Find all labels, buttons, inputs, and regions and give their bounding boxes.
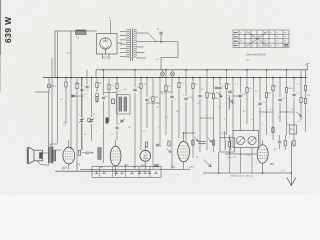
wire tube4 top link (184, 132, 196, 134)
svg-text:6,3V: 6,3V (246, 155, 251, 157)
fuse choke Dr1 (76, 30, 86, 31)
resistor at 294,143 (293, 141, 295, 146)
wire branch x=286.5 (286, 70, 288, 135)
wire branch x=247 (246, 70, 248, 124)
wire interconnect (104, 92, 117, 94)
variable capacitor C1 (236, 136, 244, 144)
small fuse at 97,95 (95, 93, 99, 97)
wire branch x=213.5 (213, 78, 215, 152)
wire branch x=147 (146, 78, 148, 128)
wire branch x=81.5 (81, 78, 83, 150)
svg-text:1M: 1M (268, 93, 271, 95)
wire branch x=52 (51, 58, 53, 147)
wire HT drop (177, 42, 179, 58)
resistor at 141,86 (140, 84, 142, 89)
wire bottom right rail (203, 172, 291, 174)
wire branch x=179 (178, 78, 180, 138)
resistor at 117,86 (116, 84, 118, 89)
left paper edge lower (0, 55, 2, 92)
wire HT to bus2 (160, 58, 162, 70)
wire main bus (43, 77, 307, 79)
resistor at 305.5,101 (304, 99, 306, 104)
node sec out (160, 41, 162, 43)
wire left drop to speaker (48, 92, 50, 165)
resistor above V4 (145, 142, 147, 147)
junction dots on buses (57, 77, 59, 79)
switch contact arrows in band (217, 92, 223, 97)
resistor at 66,84.5 (65, 82, 67, 87)
capacitor mid right (215, 87, 218, 89)
wire bus link (95, 70, 97, 78)
wire cap40 bottom (48, 88, 50, 92)
wire V4 down (144, 161, 146, 169)
small parts right band (228, 142, 230, 147)
capacitor at 240.5,96 (239, 95, 242, 97)
capacitor 40uF (47, 85, 51, 88)
svg-text:+: + (109, 16, 111, 20)
wire branch x=166 (165, 70, 167, 135)
coupling parts before tube V3 (78, 150, 80, 155)
svg-text:Netz: Netz (67, 52, 72, 55)
dial lamp La1 (160, 72, 164, 76)
wire branch x=294 (293, 78, 295, 147)
loudspeaker (34, 150, 43, 161)
wire sec tap6 (137, 57, 146, 59)
rectifier box (97, 34, 118, 55)
resistor at 226.5,86 (225, 84, 227, 89)
wave switch contact (204, 160, 212, 167)
capacitor mid right 2 (228, 91, 231, 93)
trimmer circle left (87, 118, 91, 122)
svg-text:1M: 1M (156, 107, 159, 109)
resistor at 213.5,96 (212, 94, 214, 99)
resistor at 77,86 (76, 84, 78, 89)
wire branch x=305.5 (305, 78, 307, 132)
svg-text:2M: 2M (99, 83, 102, 85)
svg-text:AB1: AB1 (270, 163, 275, 166)
svg-text:40 +: 40 + (52, 85, 57, 88)
wire lamp1 bottom (162, 76, 164, 78)
capacitor at 172,97 (170, 96, 173, 98)
wire branch x=141 (140, 78, 142, 150)
wire into V6 (225, 153, 257, 155)
wire interconnect (260, 111, 273, 113)
wire interconnect (233, 95, 241, 97)
wire plus stub (110, 20, 112, 34)
capacitor at 260,104 (258, 103, 261, 105)
resistor at 247,90 (246, 88, 248, 93)
wire speaker to output transformer (38, 153, 49, 165)
ground ticks bottom (95, 171, 98, 173)
capacitor at 82,90 (80, 89, 83, 91)
resistor at 273,88 (272, 86, 274, 91)
wire interconnect (280, 111, 294, 113)
heater lead b (108, 54, 110, 59)
svg-text:Stimmbild 639 W: Stimmbild 639 W (246, 53, 266, 57)
rectifier tube V1 AZ11 (100, 38, 111, 49)
wire osc to bottom (218, 152, 220, 173)
resistor at 97,85 (96, 83, 98, 88)
wire sec tap1 (137, 32, 148, 34)
rectifier cathode lead (105, 49, 107, 54)
svg-text:17V: 17V (76, 165, 81, 167)
wire branch x=153 (152, 78, 154, 170)
capacitor at 294,95 (292, 94, 295, 96)
node osc bottom (218, 172, 220, 174)
resistor at 153,99 (152, 97, 154, 102)
svg-text:2M: 2M (209, 93, 212, 95)
capacitor at 117,128 (115, 127, 118, 129)
resistor small extra (96, 97, 98, 102)
wire bottom rail 2 (80, 168, 190, 170)
voltage table (233, 30, 289, 48)
capacitor HT smoothing (160, 34, 162, 42)
wire second bus (96, 69, 308, 71)
svg-text:Wellenschalter i. Stellung: Wellenschalter i. Stellung (231, 174, 253, 177)
capacitor small extra (71, 95, 74, 97)
svg-text:100 = 176: 100 = 176 (227, 157, 237, 159)
wire branch x=280 (279, 78, 281, 122)
heater lead a (102, 54, 104, 59)
wire gang drop 2 (251, 148, 253, 174)
wire branch x=77 (76, 78, 78, 172)
parts above V5 (192, 140, 194, 145)
capacitor at 200,96 (198, 95, 201, 97)
wire lamp1 top (162, 70, 164, 72)
wire branch x=193 (192, 78, 194, 158)
wire branch x=135 (134, 70, 136, 170)
wire stub left (35, 91, 49, 93)
capacitor at 147,100 (145, 99, 148, 101)
coil before V3 (98, 148, 101, 160)
wire lamp2 bottom (172, 76, 174, 78)
wire branch x=226.5 (226, 70, 228, 135)
capacitor at 103.5,98 (102, 97, 105, 99)
wire branch x=253.5 (253, 78, 255, 131)
tube V5 AF7 (178, 141, 190, 161)
resistor at 109,87 (108, 85, 110, 90)
antenna symbol (287, 178, 296, 186)
wire branch x=160 (159, 78, 161, 147)
wire branch x=57.5 (57, 31, 59, 143)
wire mains right drop (70, 31, 72, 78)
wire branch x=109 (108, 78, 110, 122)
wire branch x=82 (81, 78, 83, 150)
wire HT to right (161, 41, 178, 43)
variable capacitor C2 (248, 136, 256, 144)
antenna mark top right (307, 65, 309, 70)
wire branch x=71 (70, 78, 72, 150)
wire branch x=200 (199, 78, 201, 152)
resistor at 166,88 (165, 86, 167, 91)
tuning gang box (233, 131, 259, 148)
table cell text marks (234, 32, 288, 46)
svg-text:AL4: AL4 (62, 165, 67, 169)
tube V3 AF7 (110, 146, 121, 166)
wire branch x=240.5 (240, 78, 242, 131)
resistor at 266.5,95 (265, 93, 267, 98)
resistor at 207,95 (206, 93, 208, 98)
capacitor at 186,99 (184, 98, 187, 100)
oscillator coil box (220, 138, 234, 153)
capacitor dark below V4 (155, 164, 159, 167)
wire lamp2 top (172, 70, 174, 72)
wire branch x=117 (116, 78, 118, 140)
transformer Tr1 core (130, 29, 132, 62)
wire branch x=103.5 (103, 70, 105, 163)
resistor at 301,100 (300, 98, 302, 103)
capacitor at 280,100 (278, 99, 281, 101)
capacitor at 87,87 (85, 86, 88, 88)
wire branch x=66 (65, 78, 67, 124)
wire bottom left rail (55, 170, 150, 172)
wire branch x=87 (86, 70, 88, 91)
tube V4 AB2 (circle) (140, 150, 151, 161)
wire sec tap3 (137, 41, 157, 43)
dial lamp La2 (170, 72, 174, 76)
trimmer at 81.5,120.5 (80, 120, 83, 122)
wire sec tap5 (137, 52, 145, 54)
wire mains top (55, 30, 97, 32)
svg-text:1M: 1M (155, 97, 158, 99)
output transformer Tr2 (49, 148, 52, 163)
wire rect to tr (117, 42, 122, 44)
oscillator loop coil mid right (229, 96, 230, 110)
wire interconnect (71, 95, 84, 97)
wire sec tap4 (137, 46, 144, 48)
transformer Tr1 primary winding (120, 29, 130, 57)
node V6 bottom (262, 172, 264, 174)
capacitor at 220,88 (218, 87, 221, 89)
wire cap40 top (48, 78, 50, 84)
wire branch x=186 (185, 70, 187, 141)
svg-text:AZ 11: AZ 11 (103, 57, 110, 60)
wire transformer to tube V2 (56, 149, 61, 151)
resistor at 193,86 (192, 84, 194, 89)
wire branch x=172 (171, 78, 173, 170)
switch mains selector (148, 33, 157, 42)
wire branch x=233 (232, 78, 234, 131)
resistor at 179,85 (178, 83, 180, 88)
wire bus right end up (305, 70, 307, 78)
resistor at 305.5,88 (304, 86, 306, 91)
wire osc coil drop (229, 152, 231, 173)
wire mains left drop (54, 31, 56, 78)
wire to HT (157, 41, 162, 43)
wire HT horizontal (161, 57, 178, 59)
trimmer below T1 (120, 120, 123, 122)
wire interconnect (160, 91, 172, 93)
wire interconnect (146, 102, 160, 104)
wire antenna lead (290, 142, 292, 186)
svg-text:2M: 2M (307, 95, 310, 97)
svg-text:639 W: 639 W (3, 16, 13, 43)
small parts right of gang (272, 128, 274, 133)
svg-text:AF7: AF7 (124, 164, 129, 167)
output tube V2 AL4 (63, 147, 75, 164)
svg-text:1,7V: 1,7V (189, 167, 194, 169)
band switch box (92, 166, 161, 177)
parts left of V5 (168, 141, 170, 146)
wire branch x=220 (219, 78, 221, 138)
wire branch x=91.5 (91, 78, 93, 141)
svg-text:2,2V: 2,2V (281, 171, 286, 173)
resistor dark near T1 (112, 99, 115, 104)
wire branch x=260 (259, 78, 261, 145)
tube V6 AB1 (257, 145, 268, 163)
wire branch x=266.5 (266, 70, 268, 135)
capacitor at 135,90 (133, 89, 136, 91)
wire branch x=273 (272, 78, 274, 140)
trimmer at 91.5,120.5 (90, 120, 93, 122)
resistor at 286.5,90 (285, 88, 287, 93)
wire gang drop 1 (240, 148, 242, 174)
left paper edge (0, 0, 2, 55)
wire interconnect (200, 117, 214, 119)
selector box right (290, 125, 297, 134)
node antenna (291, 172, 293, 174)
wire branch x=301 (300, 70, 302, 120)
wire branch x=207 (206, 70, 208, 150)
transformer Tr1 secondary winding (134, 29, 137, 57)
IF transformer T1 (117, 95, 131, 115)
wire branch x=97 (96, 78, 98, 103)
capacitor above V4 (156, 144, 159, 146)
